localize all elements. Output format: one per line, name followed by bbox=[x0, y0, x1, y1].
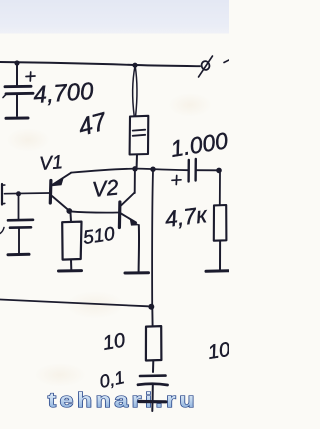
svg-text:10: 10 bbox=[206, 339, 229, 364]
svg-text:4,700: 4,700 bbox=[33, 78, 95, 109]
svg-text:V2: V2 bbox=[91, 175, 120, 202]
svg-text:10: 10 bbox=[101, 329, 127, 355]
svg-text:510: 510 bbox=[82, 224, 117, 249]
svg-text:V1: V1 bbox=[39, 152, 64, 175]
svg-text:tehnari.ru: tehnari.ru bbox=[48, 389, 198, 411]
svg-text:4,7к: 4,7к bbox=[164, 202, 210, 232]
